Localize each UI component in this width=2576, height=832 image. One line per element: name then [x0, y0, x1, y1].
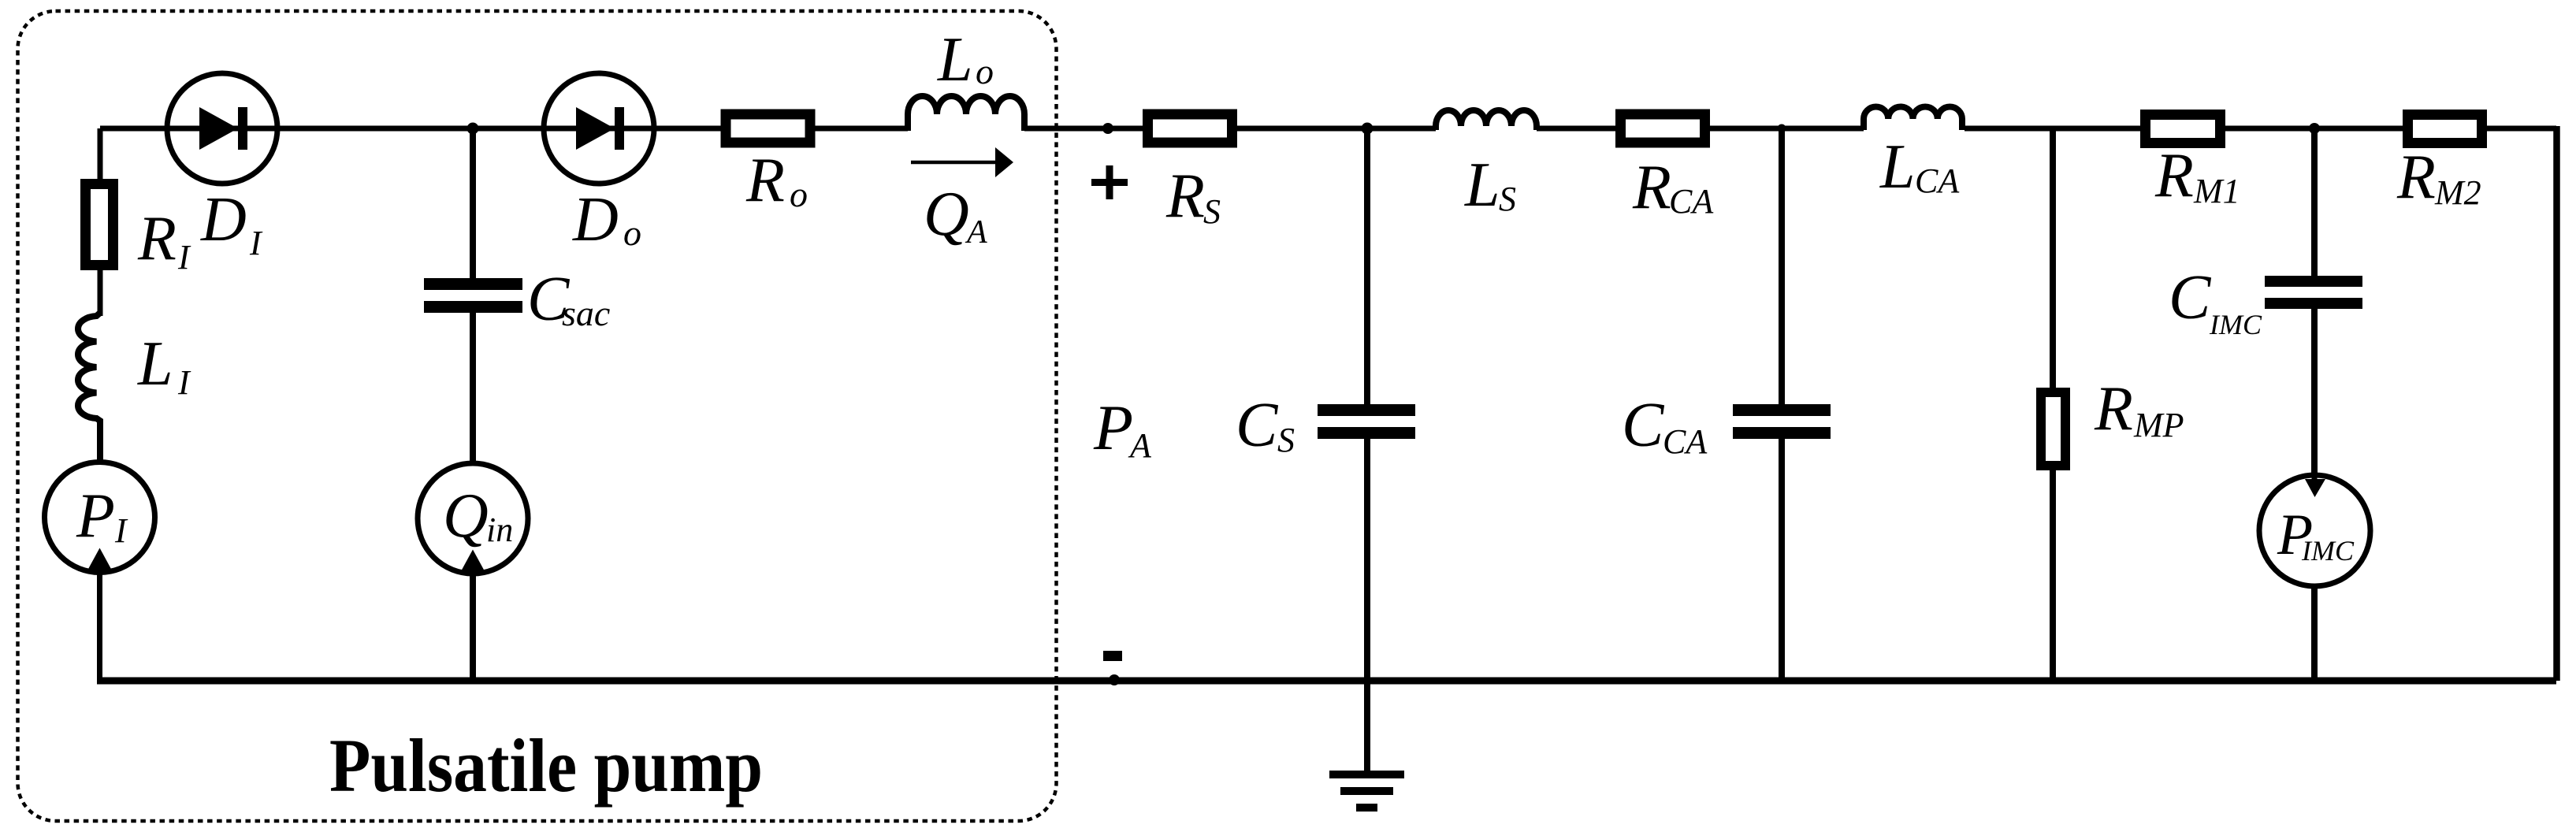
wire top rail LCA to right edge: [1965, 126, 2556, 132]
svg-text:S: S: [1499, 180, 1516, 218]
wire PIMC to bottom: [2311, 586, 2318, 682]
svg-text:CA: CA: [1669, 182, 1714, 221]
wire RMP branch upper: [2050, 128, 2056, 388]
svg-text:A: A: [1128, 426, 1152, 465]
wire Csac branch upper: [470, 128, 476, 278]
diode DO: [544, 73, 654, 184]
node dot CIMC top: [2309, 123, 2320, 134]
wire PI to bottom: [97, 573, 102, 683]
node dot PA plus terminal: [1102, 123, 1113, 134]
svg-text:M2: M2: [2434, 173, 2481, 212]
svg-text:L: L: [1879, 132, 1916, 202]
capacitor CCA: [1733, 404, 1831, 416]
inductor LCA: [1864, 106, 1962, 130]
diode DI: [167, 73, 277, 184]
wire top rail left: [100, 126, 908, 132]
svg-text:R: R: [2154, 141, 2194, 210]
svg-text:I: I: [249, 224, 263, 262]
capacitor Csac: [424, 278, 522, 290]
wire left branch upper: [98, 128, 103, 179]
node dot CS top: [1362, 123, 1373, 135]
resistor RM2: [2408, 115, 2482, 143]
resistor RCA: [1621, 114, 1705, 143]
wire CIMC to PIMC: [2311, 309, 2318, 476]
svg-text:in: in: [486, 511, 513, 549]
wire CIMC branch upper: [2311, 128, 2318, 276]
svg-text:C: C: [1236, 391, 1279, 460]
node dot CCA top: [1778, 124, 1786, 133]
svg-text:I: I: [114, 511, 128, 550]
wire Csac to Qin: [470, 313, 476, 463]
svg-text:sac: sac: [562, 293, 610, 333]
source PIMC: [2259, 475, 2370, 586]
svg-text:L: L: [137, 329, 173, 399]
svg-text:L: L: [1464, 150, 1500, 220]
capacitor CIMC: [2265, 276, 2362, 287]
inductor LO: [908, 96, 1024, 131]
svg-text:o: o: [790, 174, 808, 214]
minus sign: [1103, 651, 1122, 661]
svg-text:R: R: [137, 204, 177, 273]
svg-text:CA: CA: [1663, 422, 1708, 461]
svg-text:P: P: [76, 481, 115, 551]
svg-text:D: D: [572, 185, 619, 254]
source PI: [45, 462, 155, 573]
svg-text:R: R: [2094, 374, 2133, 444]
resistor RM1: [2146, 115, 2221, 143]
wire Qin to bottom: [470, 574, 476, 682]
plus sign: [1091, 165, 1128, 199]
svg-text:C: C: [1622, 391, 1665, 460]
resistor RMP: [2041, 392, 2065, 466]
wire top rail LO to LS: [1024, 126, 1436, 132]
svg-text:IMC: IMC: [2301, 535, 2355, 566]
svg-text:MP: MP: [2133, 406, 2184, 444]
dashed box Pulsatile pump: [18, 11, 1057, 821]
svg-text:P: P: [1093, 392, 1133, 463]
wire RI to LI: [98, 270, 103, 316]
wire bottom rail: [97, 678, 2556, 685]
svg-text:R: R: [2396, 143, 2436, 212]
arrow in PI: [88, 548, 112, 570]
svg-text:CA: CA: [1915, 162, 1960, 200]
wire RMP to bottom: [2050, 470, 2056, 682]
svg-text:C: C: [2169, 263, 2212, 332]
source Qin: [418, 463, 528, 574]
svg-text:Pulsatile pump: Pulsatile pump: [329, 723, 763, 808]
svg-text:D: D: [200, 185, 247, 254]
svg-text:I: I: [177, 238, 191, 277]
arrow in PIMC: [2305, 479, 2325, 497]
capacitor CS: [1318, 404, 1415, 416]
wire right edge: [2553, 126, 2560, 681]
resistor RI: [86, 184, 113, 266]
svg-text:I: I: [177, 363, 191, 402]
inductor LI: [78, 313, 100, 462]
arrow in Qin: [461, 550, 485, 572]
resistor RS: [1148, 114, 1232, 143]
wire CS to ground: [1364, 439, 1370, 771]
arrow QA: [911, 161, 998, 165]
svg-text:S: S: [1203, 192, 1221, 231]
svg-text:S: S: [1277, 421, 1295, 459]
ground: [1329, 771, 1404, 778]
svg-text:A: A: [965, 214, 987, 251]
wire CCA branch upper: [1779, 128, 1785, 404]
svg-text:R: R: [1165, 162, 1205, 231]
svg-text:Q: Q: [924, 180, 969, 249]
wire top rail LS to LCA: [1537, 126, 1864, 132]
wire CS branch upper: [1364, 128, 1370, 404]
svg-text:o: o: [976, 51, 994, 91]
node dot Csac top: [467, 123, 479, 135]
minus terminal dot: [1109, 674, 1120, 685]
svg-text:o: o: [623, 213, 641, 253]
svg-text:Q: Q: [443, 481, 489, 551]
inductor LS: [1436, 110, 1537, 130]
resistor RO: [726, 114, 810, 143]
svg-text:IMC: IMC: [2209, 309, 2262, 340]
svg-text:M1: M1: [2193, 172, 2240, 210]
wire CCA to bottom: [1779, 439, 1785, 682]
svg-text:L: L: [937, 25, 973, 95]
svg-text:R: R: [745, 146, 785, 215]
svg-text:R: R: [1632, 153, 1671, 222]
